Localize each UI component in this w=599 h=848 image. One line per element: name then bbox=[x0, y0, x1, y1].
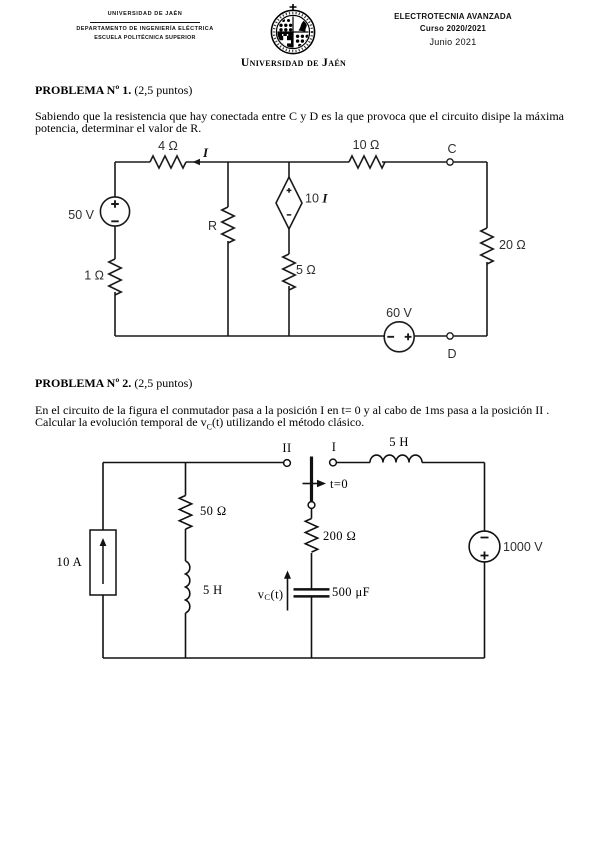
switch terminal II bbox=[284, 460, 291, 467]
wire bottom rail bbox=[103, 657, 485, 659]
problem 1 title bbox=[35, 84, 192, 97]
logo seal of Universidad de Jaén bbox=[266, 3, 322, 61]
svg-text:I: I bbox=[202, 145, 209, 160]
inductor 5H top bbox=[370, 455, 422, 462]
problem 2 statement bbox=[35, 404, 564, 435]
svg-text:5 H: 5 H bbox=[389, 435, 409, 449]
svg-text:50 V: 50 V bbox=[68, 208, 94, 222]
Q4 dots bbox=[296, 35, 309, 48]
svg-text:4 Ω: 4 Ω bbox=[158, 139, 178, 153]
resistor 50ohm bbox=[179, 496, 191, 530]
dependent source 10I diamond bbox=[276, 177, 302, 229]
current source 10A bbox=[90, 530, 116, 595]
node C terminal bbox=[447, 159, 453, 165]
wire branch 50ohm/5H bbox=[185, 463, 187, 659]
wire left rail bbox=[114, 162, 116, 336]
svg-text:1000 V: 1000 V bbox=[503, 540, 543, 554]
logo caption bbox=[228, 56, 359, 69]
switch pivot bbox=[308, 502, 315, 509]
resistor 1ohm bbox=[109, 259, 121, 295]
resistor 200ohm bbox=[305, 519, 317, 553]
wire left rail bbox=[102, 463, 104, 659]
source 60V bbox=[384, 322, 414, 352]
current arrow I bbox=[193, 159, 200, 165]
capacitor 500uF bbox=[294, 589, 330, 596]
source 50V bbox=[100, 197, 129, 226]
switch terminal I bbox=[330, 459, 337, 466]
resistor 20ohm bbox=[481, 228, 493, 264]
vc(t) arrow bbox=[284, 571, 291, 611]
switch blade bbox=[310, 457, 313, 502]
wire branch capacitor bbox=[311, 509, 313, 659]
svg-text:5 H: 5 H bbox=[203, 583, 223, 597]
wire branch R bbox=[227, 162, 229, 336]
svg-text:200 Ω: 200 Ω bbox=[323, 529, 356, 543]
wire right rail bbox=[486, 162, 488, 336]
quarter borders bbox=[277, 16, 309, 48]
wire right rail bbox=[484, 463, 486, 659]
seal shield quarters bbox=[277, 16, 309, 48]
svg-text:II: II bbox=[282, 441, 291, 455]
svg-text:C: C bbox=[447, 142, 456, 156]
inductor 5H left bbox=[186, 561, 190, 613]
Q3 castle bbox=[279, 34, 291, 47]
svg-text:R: R bbox=[208, 219, 217, 233]
svg-text:10 A: 10 A bbox=[56, 555, 82, 569]
resistor R bbox=[222, 207, 234, 243]
Q2 lion bbox=[299, 20, 308, 32]
svg-text:50 Ω: 50 Ω bbox=[200, 504, 227, 518]
svg-text:I: I bbox=[332, 440, 337, 454]
Q1 dots bbox=[279, 19, 292, 31]
node D terminal bbox=[447, 333, 453, 339]
svg-text:20 Ω: 20 Ω bbox=[499, 238, 526, 252]
wire top rail left segment bbox=[103, 462, 284, 464]
svg-text:5 Ω: 5 Ω bbox=[296, 263, 316, 277]
header right: course block bbox=[388, 12, 518, 47]
svg-text:10 I: 10 I bbox=[305, 191, 328, 206]
svg-text:D: D bbox=[447, 347, 456, 361]
problem 2 title bbox=[35, 377, 192, 390]
seal outer ring bbox=[271, 10, 314, 53]
resistor 4ohm bbox=[150, 156, 186, 168]
label 10 I bbox=[305, 191, 328, 206]
svg-text:500 μF: 500 μF bbox=[332, 585, 370, 599]
svg-text:1 Ω: 1 Ω bbox=[84, 269, 104, 283]
seal cross finial bbox=[290, 4, 297, 11]
svg-text:t=0: t=0 bbox=[330, 477, 348, 491]
svg-text:60 V: 60 V bbox=[386, 306, 412, 320]
wire bottom rail bbox=[115, 335, 487, 337]
wire branch dependent source bbox=[288, 162, 290, 336]
svg-text:vC(t): vC(t) bbox=[258, 588, 284, 603]
svg-text:10 Ω: 10 Ω bbox=[353, 138, 380, 152]
switch arrow t=0 bbox=[303, 480, 327, 487]
problem 1 statement bbox=[35, 110, 564, 135]
wire top rail right segment bbox=[337, 462, 485, 464]
wire top rail bbox=[115, 161, 487, 163]
resistor 5ohm bbox=[283, 254, 295, 290]
header left: university name block bbox=[74, 11, 216, 42]
resistor 10ohm bbox=[349, 156, 385, 168]
source 1000V bbox=[469, 531, 500, 562]
